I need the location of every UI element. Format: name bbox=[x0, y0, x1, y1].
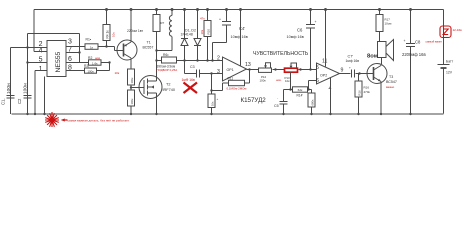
diode D1 bbox=[181, 10, 188, 61]
svg-text:0,1МОм-2МОм: 0,1МОм-2МОм bbox=[227, 86, 247, 90]
node R7 rail bbox=[155, 8, 158, 11]
svg-text:R16: R16 bbox=[364, 86, 370, 90]
capacitor C4 bbox=[213, 10, 232, 61]
node R11 tap bbox=[248, 68, 250, 70]
node gate bbox=[130, 86, 132, 88]
node pin5/C2 junction bbox=[26, 61, 28, 63]
wire feedback row bbox=[284, 89, 312, 91]
svg-text:10к: 10к bbox=[285, 79, 290, 83]
node C8 ground bbox=[409, 113, 411, 115]
wire R6 row bbox=[157, 60, 223, 62]
mark red arrow bbox=[62, 118, 68, 121]
wire pin1 to ground bbox=[35, 71, 47, 115]
op-amp OP2 bbox=[317, 63, 340, 84]
node OP2 vee ground bbox=[329, 113, 331, 115]
node T1 emitter rail bbox=[130, 8, 133, 11]
svg-text:+: + bbox=[315, 20, 317, 24]
svg-text:Т2: Т2 bbox=[166, 83, 170, 87]
wire OP1 vcc drop bbox=[240, 10, 242, 66]
capacitor C7 bbox=[352, 70, 355, 78]
svg-text:100н: 100н bbox=[22, 83, 28, 94]
svg-text:+: + bbox=[404, 39, 406, 43]
node bias mid bbox=[210, 89, 212, 91]
svg-text:R14′: R14′ bbox=[297, 93, 304, 97]
svg-text:R11: R11 bbox=[228, 76, 234, 80]
svg-text:10к: 10к bbox=[115, 71, 120, 75]
svg-text:62к: 62к bbox=[298, 88, 303, 92]
svg-text:10мф 16в: 10мф 16в bbox=[231, 35, 248, 39]
wire right edge battery drop bbox=[443, 10, 445, 114]
svg-text:100к: 100к bbox=[87, 69, 94, 73]
svg-text:100к: 100к bbox=[260, 79, 267, 83]
resistor R7 vertical from rail bbox=[153, 10, 160, 61]
svg-text:С8: С8 bbox=[415, 40, 421, 45]
svg-text:C4′: C4′ bbox=[239, 26, 245, 31]
node R4 top bbox=[105, 8, 108, 11]
svg-text:3: 3 bbox=[217, 69, 220, 75]
mark red star annotation bbox=[45, 112, 59, 128]
node R16 tap bbox=[358, 72, 360, 74]
node R2 link bbox=[108, 61, 110, 63]
svg-text:С6: С6 bbox=[297, 28, 303, 33]
node L1 rail bbox=[171, 8, 174, 11]
node pin7 junction bbox=[78, 51, 80, 53]
capacitor C3 row bbox=[185, 61, 223, 78]
node ground C2 bbox=[26, 113, 28, 115]
wire R1 to T1 base bbox=[98, 47, 124, 51]
wire bottom ground rail bbox=[12, 113, 444, 115]
resistor R5 gate upper bbox=[128, 69, 135, 85]
svg-text:47к: 47к bbox=[200, 17, 205, 21]
svg-text:+: + bbox=[219, 18, 221, 22]
op-amp OP1 bbox=[223, 57, 247, 81]
node C4 rail bbox=[225, 8, 228, 11]
potentiometer P1 bbox=[259, 63, 272, 73]
resistor R4 vertical bbox=[103, 10, 110, 47]
svg-text:8ом: 8ом bbox=[367, 54, 378, 60]
svg-text:R1•: R1• bbox=[86, 38, 92, 42]
svg-text:нов.: нов. bbox=[276, 78, 282, 82]
capacitor C1 100n bbox=[7, 96, 15, 99]
wire pin4 bbox=[34, 51, 47, 53]
wire R2/R3 link bbox=[97, 63, 110, 71]
svg-text:самая важная деталь, без неё н: самая важная деталь, без неё не работает bbox=[68, 118, 130, 122]
transistor T3 BC547 bbox=[367, 64, 387, 114]
svg-text:IRF740: IRF740 bbox=[163, 88, 175, 92]
wire pin5 bbox=[28, 62, 48, 64]
node R4 bottom bbox=[105, 45, 107, 47]
resistor R15 680k vertical bbox=[308, 90, 315, 114]
svg-text:2: 2 bbox=[217, 56, 220, 62]
node R15 ground bbox=[310, 113, 312, 115]
svg-text:1.6к: 1.6к bbox=[92, 61, 98, 65]
svg-text:′: ′ bbox=[278, 97, 279, 101]
svg-text:10к: 10к bbox=[200, 29, 204, 34]
node C6 bottom bbox=[309, 68, 311, 70]
wire OP2 pin6 jog bbox=[309, 81, 317, 90]
node R17 rail bbox=[378, 8, 381, 11]
battery B1 12V bbox=[438, 65, 450, 69]
svg-text:Т3: Т3 bbox=[389, 75, 393, 79]
node R16 ground bbox=[357, 113, 359, 115]
svg-text:NE555: NE555 bbox=[55, 51, 62, 72]
svg-text:С3: С3 bbox=[190, 65, 195, 69]
svg-text:1: 1 bbox=[39, 66, 43, 73]
svg-text:Батт: Батт bbox=[446, 60, 454, 64]
svg-text:1мф 16в: 1мф 16в bbox=[346, 59, 360, 63]
node D2 bottom bbox=[196, 59, 198, 61]
svg-text:11: 11 bbox=[322, 59, 327, 65]
svg-text:Т1: Т1 bbox=[147, 41, 151, 45]
node T3 emitter ground bbox=[380, 113, 382, 115]
transistor T1 BC557 bbox=[117, 10, 137, 70]
resistor R8 gate lower bbox=[128, 85, 135, 114]
svg-text:+: + bbox=[349, 66, 351, 70]
svg-text:9: 9 bbox=[341, 68, 344, 74]
wire P2 wiper to feedback row bbox=[290, 72, 292, 89]
svg-text:1N4148: 1N4148 bbox=[181, 32, 193, 36]
wire pot row bbox=[247, 69, 317, 71]
svg-text:R7: R7 bbox=[161, 21, 165, 25]
wire pin2 to C1/C2 node bbox=[11, 48, 48, 115]
svg-text:6: 6 bbox=[68, 56, 72, 63]
capacitor C5 bbox=[280, 90, 288, 115]
svg-text:1мФ 16в: 1мФ 16в bbox=[182, 78, 196, 82]
svg-text:R16: R16 bbox=[357, 90, 361, 96]
svg-text:2200мф 16в: 2200мф 16в bbox=[402, 52, 426, 57]
potentiometer P2 red bbox=[285, 68, 298, 72]
resistor bias vertical below C3 node bbox=[208, 74, 215, 114]
node OP1 vcc rail bbox=[239, 8, 242, 11]
svg-text:R3,: R3, bbox=[84, 64, 89, 68]
svg-text:ОР2: ОР2 bbox=[320, 74, 327, 78]
resistor R16 470k bbox=[355, 74, 362, 114]
svg-text:К157УД2: К157УД2 bbox=[241, 97, 267, 104]
IC U1 NE555 bbox=[47, 41, 66, 77]
svg-text:С2: С2 bbox=[17, 98, 22, 104]
wire OP2 output row bbox=[340, 73, 369, 75]
svg-text:220ом 1вт: 220ом 1вт bbox=[127, 29, 143, 33]
node C4 pin2 bbox=[211, 59, 213, 61]
inductor L1 coil bbox=[157, 10, 173, 51]
svg-text:С5: С5 bbox=[274, 104, 279, 108]
svg-text:С1,: С1, bbox=[1, 98, 6, 105]
svg-text:100к: 100к bbox=[130, 98, 134, 105]
resistor R3 100k bbox=[85, 68, 97, 73]
capacitor C8 2200uF bbox=[406, 10, 415, 114]
svg-text:самый важн: самый важн bbox=[426, 40, 443, 44]
svg-text:13: 13 bbox=[245, 62, 251, 68]
mark red X deleted cap bbox=[184, 83, 198, 94]
node R7/L1 bbox=[155, 49, 157, 51]
svg-text:нов: нов bbox=[95, 56, 100, 60]
node P1 right bbox=[274, 68, 276, 70]
node OP2 vcc rail bbox=[324, 8, 327, 11]
wire net pins 7-6 top link bbox=[28, 34, 80, 63]
svg-text:10к: 10к bbox=[112, 32, 116, 37]
resistor R11 feedback bbox=[212, 70, 250, 91]
resistor R6 bbox=[162, 57, 177, 63]
wire pin6 to R2 bbox=[66, 62, 89, 64]
transistor T2 IRF740 mosfet bbox=[139, 61, 162, 115]
wire pin7 bbox=[66, 52, 80, 54]
svg-text:470к: 470к bbox=[364, 90, 371, 94]
capacitor C6 bbox=[306, 10, 315, 70]
diode D2 bbox=[194, 10, 201, 61]
svg-text:3: 3 bbox=[68, 39, 72, 46]
svg-text:100к: 100к bbox=[130, 77, 134, 84]
speaker LS1 8om bbox=[378, 40, 394, 65]
wire pin8 to R3 bbox=[66, 70, 85, 72]
svg-text:С7′: С7′ bbox=[348, 55, 354, 59]
svg-text:100н: 100н bbox=[6, 83, 12, 94]
mark red connector symbol bbox=[440, 26, 451, 38]
node R10 bottom bbox=[206, 59, 208, 61]
node C6 rail bbox=[309, 8, 312, 11]
svg-text:+: + bbox=[217, 97, 219, 101]
svg-text:ПОДБОР 0,25А: ПОДБОР 0,25А bbox=[157, 68, 178, 72]
wire OP2 vcc drop bbox=[325, 10, 327, 67]
node C8 rail bbox=[409, 8, 412, 11]
wire top rail bbox=[34, 9, 444, 11]
svg-text:ОР1: ОР1 bbox=[227, 68, 234, 72]
node bias ground bbox=[210, 113, 212, 115]
svg-text:12-16в: 12-16в bbox=[453, 28, 463, 32]
resistor R14 62k bbox=[293, 87, 308, 92]
svg-text:R6•: R6• bbox=[163, 53, 169, 57]
svg-text:680к: 680к bbox=[310, 99, 314, 106]
node T2 drain bbox=[155, 59, 157, 61]
svg-text:R2: R2 bbox=[88, 56, 92, 60]
node P2 right bbox=[299, 68, 301, 70]
svg-text:ВС557: ВС557 bbox=[143, 46, 154, 50]
wire pin3 to R1 bbox=[66, 46, 85, 48]
node R10 rail bbox=[206, 8, 209, 11]
svg-text:5: 5 bbox=[316, 65, 319, 71]
svg-text:10ом: 10ом bbox=[385, 22, 392, 26]
svg-text:R10: R10 bbox=[206, 29, 210, 35]
node T2 source ground bbox=[155, 113, 157, 115]
svg-text:ВС547: ВС547 bbox=[386, 80, 397, 84]
wire C2 vertical bbox=[27, 34, 29, 114]
svg-text:12V: 12V bbox=[446, 71, 453, 75]
svg-text:ЧУВСТВИТЕЛЬНОСТЬ: ЧУВСТВИТЕЛЬНОСТЬ bbox=[253, 51, 309, 57]
node pin2/C2 junction bbox=[26, 46, 28, 48]
capacitor C2 100n bbox=[24, 96, 32, 99]
wire left rail drop to pin4 bbox=[33, 10, 35, 52]
resistor R17 10om bbox=[376, 10, 383, 42]
node feedback left bbox=[289, 88, 291, 90]
svg-text:10мф 16в: 10мф 16в bbox=[287, 35, 304, 39]
svg-text:R4 1к: R4 1к bbox=[105, 30, 109, 39]
svg-text:важно: важно bbox=[386, 85, 395, 89]
node D2 rail bbox=[196, 8, 199, 11]
wire gate link bbox=[131, 87, 144, 89]
node ground pin1 bbox=[34, 113, 36, 115]
node feedback right bbox=[307, 88, 309, 90]
node D1 rail bbox=[183, 8, 186, 11]
node D1 bottom bbox=[183, 59, 185, 61]
wire OP2 vee to ground bbox=[330, 78, 332, 114]
node C5 ground bbox=[282, 113, 284, 115]
node C3/R bias junction bbox=[210, 72, 212, 74]
node R8 ground bbox=[130, 113, 132, 115]
resistor R1 1k bbox=[85, 44, 98, 50]
resistor R2 1.6k bbox=[89, 60, 102, 65]
